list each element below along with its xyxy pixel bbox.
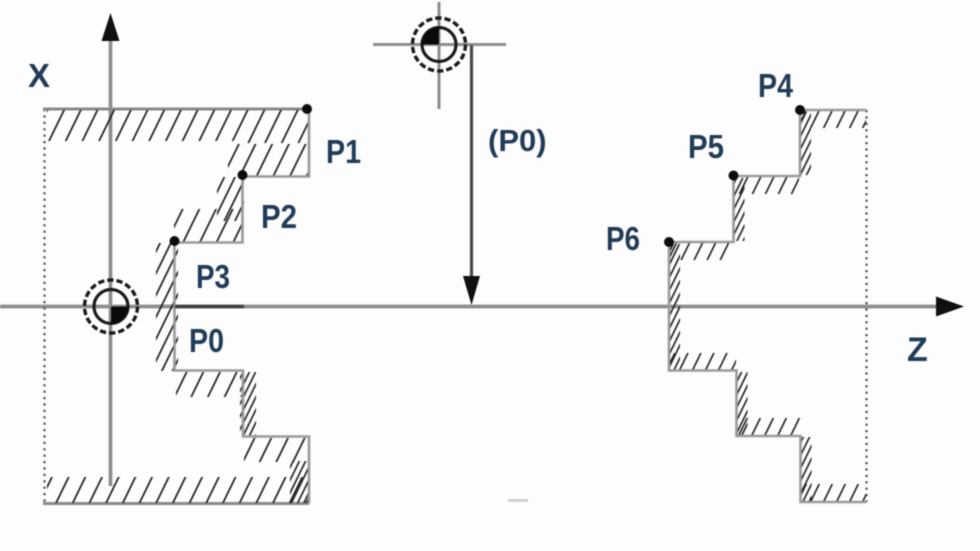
svg-text:P2: P2 <box>261 198 297 235</box>
top datum inner circle <box>422 28 456 62</box>
point P5 <box>729 171 739 181</box>
origin datum symbol outer circle <box>85 280 138 333</box>
Z axis <box>0 305 940 309</box>
right hatch band above lower step 2 <box>737 418 800 435</box>
right hatch band below P5 step <box>734 177 799 194</box>
hatch band below lower step 1 <box>176 372 242 397</box>
top datum outer circle <box>413 18 466 71</box>
right hatch band P6 vertical <box>668 244 680 370</box>
left blank top edge <box>43 108 309 111</box>
top datum crosshair vertical <box>438 2 441 109</box>
svg-text:(P0): (P0) <box>488 123 547 158</box>
left blank dotted edge <box>43 109 45 504</box>
right hatch band above bottom step <box>801 484 866 501</box>
point P3 <box>170 236 180 246</box>
P0 tick on axis <box>175 305 244 309</box>
right hatch band below top step <box>801 111 866 128</box>
svg-text:P6: P6 <box>606 220 640 257</box>
top datum filled quadrant <box>422 28 439 45</box>
Z axis arrowhead <box>936 297 964 317</box>
right hatch band below P6 step <box>670 243 732 260</box>
X axis arrowhead <box>102 13 120 41</box>
P0 reference arrow line <box>470 45 473 280</box>
svg-text:P5: P5 <box>688 128 724 165</box>
right hatch band above lower step 1 <box>670 353 736 370</box>
point P4 <box>795 105 805 115</box>
faint artifact mark <box>508 499 528 502</box>
hatch region P1 corner row 2 <box>228 144 308 176</box>
top datum crosshair horizontal <box>373 43 506 46</box>
left profile upper steps <box>175 109 310 504</box>
hatch band left of lower right vertical <box>290 461 309 503</box>
hatch band below top edge <box>47 110 242 141</box>
svg-text:P1: P1 <box>326 133 361 170</box>
svg-text:P4: P4 <box>758 67 794 104</box>
X axis <box>109 37 113 486</box>
origin datum symbol inner circle <box>94 290 128 324</box>
right hatch band P5 vertical <box>733 178 745 241</box>
right profile <box>669 110 867 502</box>
svg-text:P0: P0 <box>189 322 224 359</box>
hatch band above bottom edge <box>47 477 308 503</box>
right hatch band lower vertical 2 <box>800 437 812 501</box>
point P2 <box>238 170 248 180</box>
hatch band below lower step 2 <box>244 438 309 462</box>
right blank dotted edge <box>865 110 867 502</box>
right hatch band lower vertical 1 <box>736 372 748 435</box>
left blank bottom edge <box>43 502 309 505</box>
hatch band right of lower vertical <box>240 372 256 436</box>
svg-text:P3: P3 <box>196 258 230 295</box>
point P6 <box>664 237 674 247</box>
svg-text:Z: Z <box>907 331 928 369</box>
hatch band along P3-P0 vertical <box>156 243 178 371</box>
point P1 <box>302 104 312 114</box>
hatch region P1 corner row 1 <box>242 110 308 143</box>
svg-text:X: X <box>28 57 50 94</box>
P0 reference arrowhead <box>463 276 480 305</box>
hatch band above P3 step <box>174 209 242 242</box>
origin datum filled quadrant <box>111 307 128 324</box>
right hatch band P4 vertical <box>799 112 811 175</box>
hatch band left of P2 vertical <box>217 177 244 221</box>
